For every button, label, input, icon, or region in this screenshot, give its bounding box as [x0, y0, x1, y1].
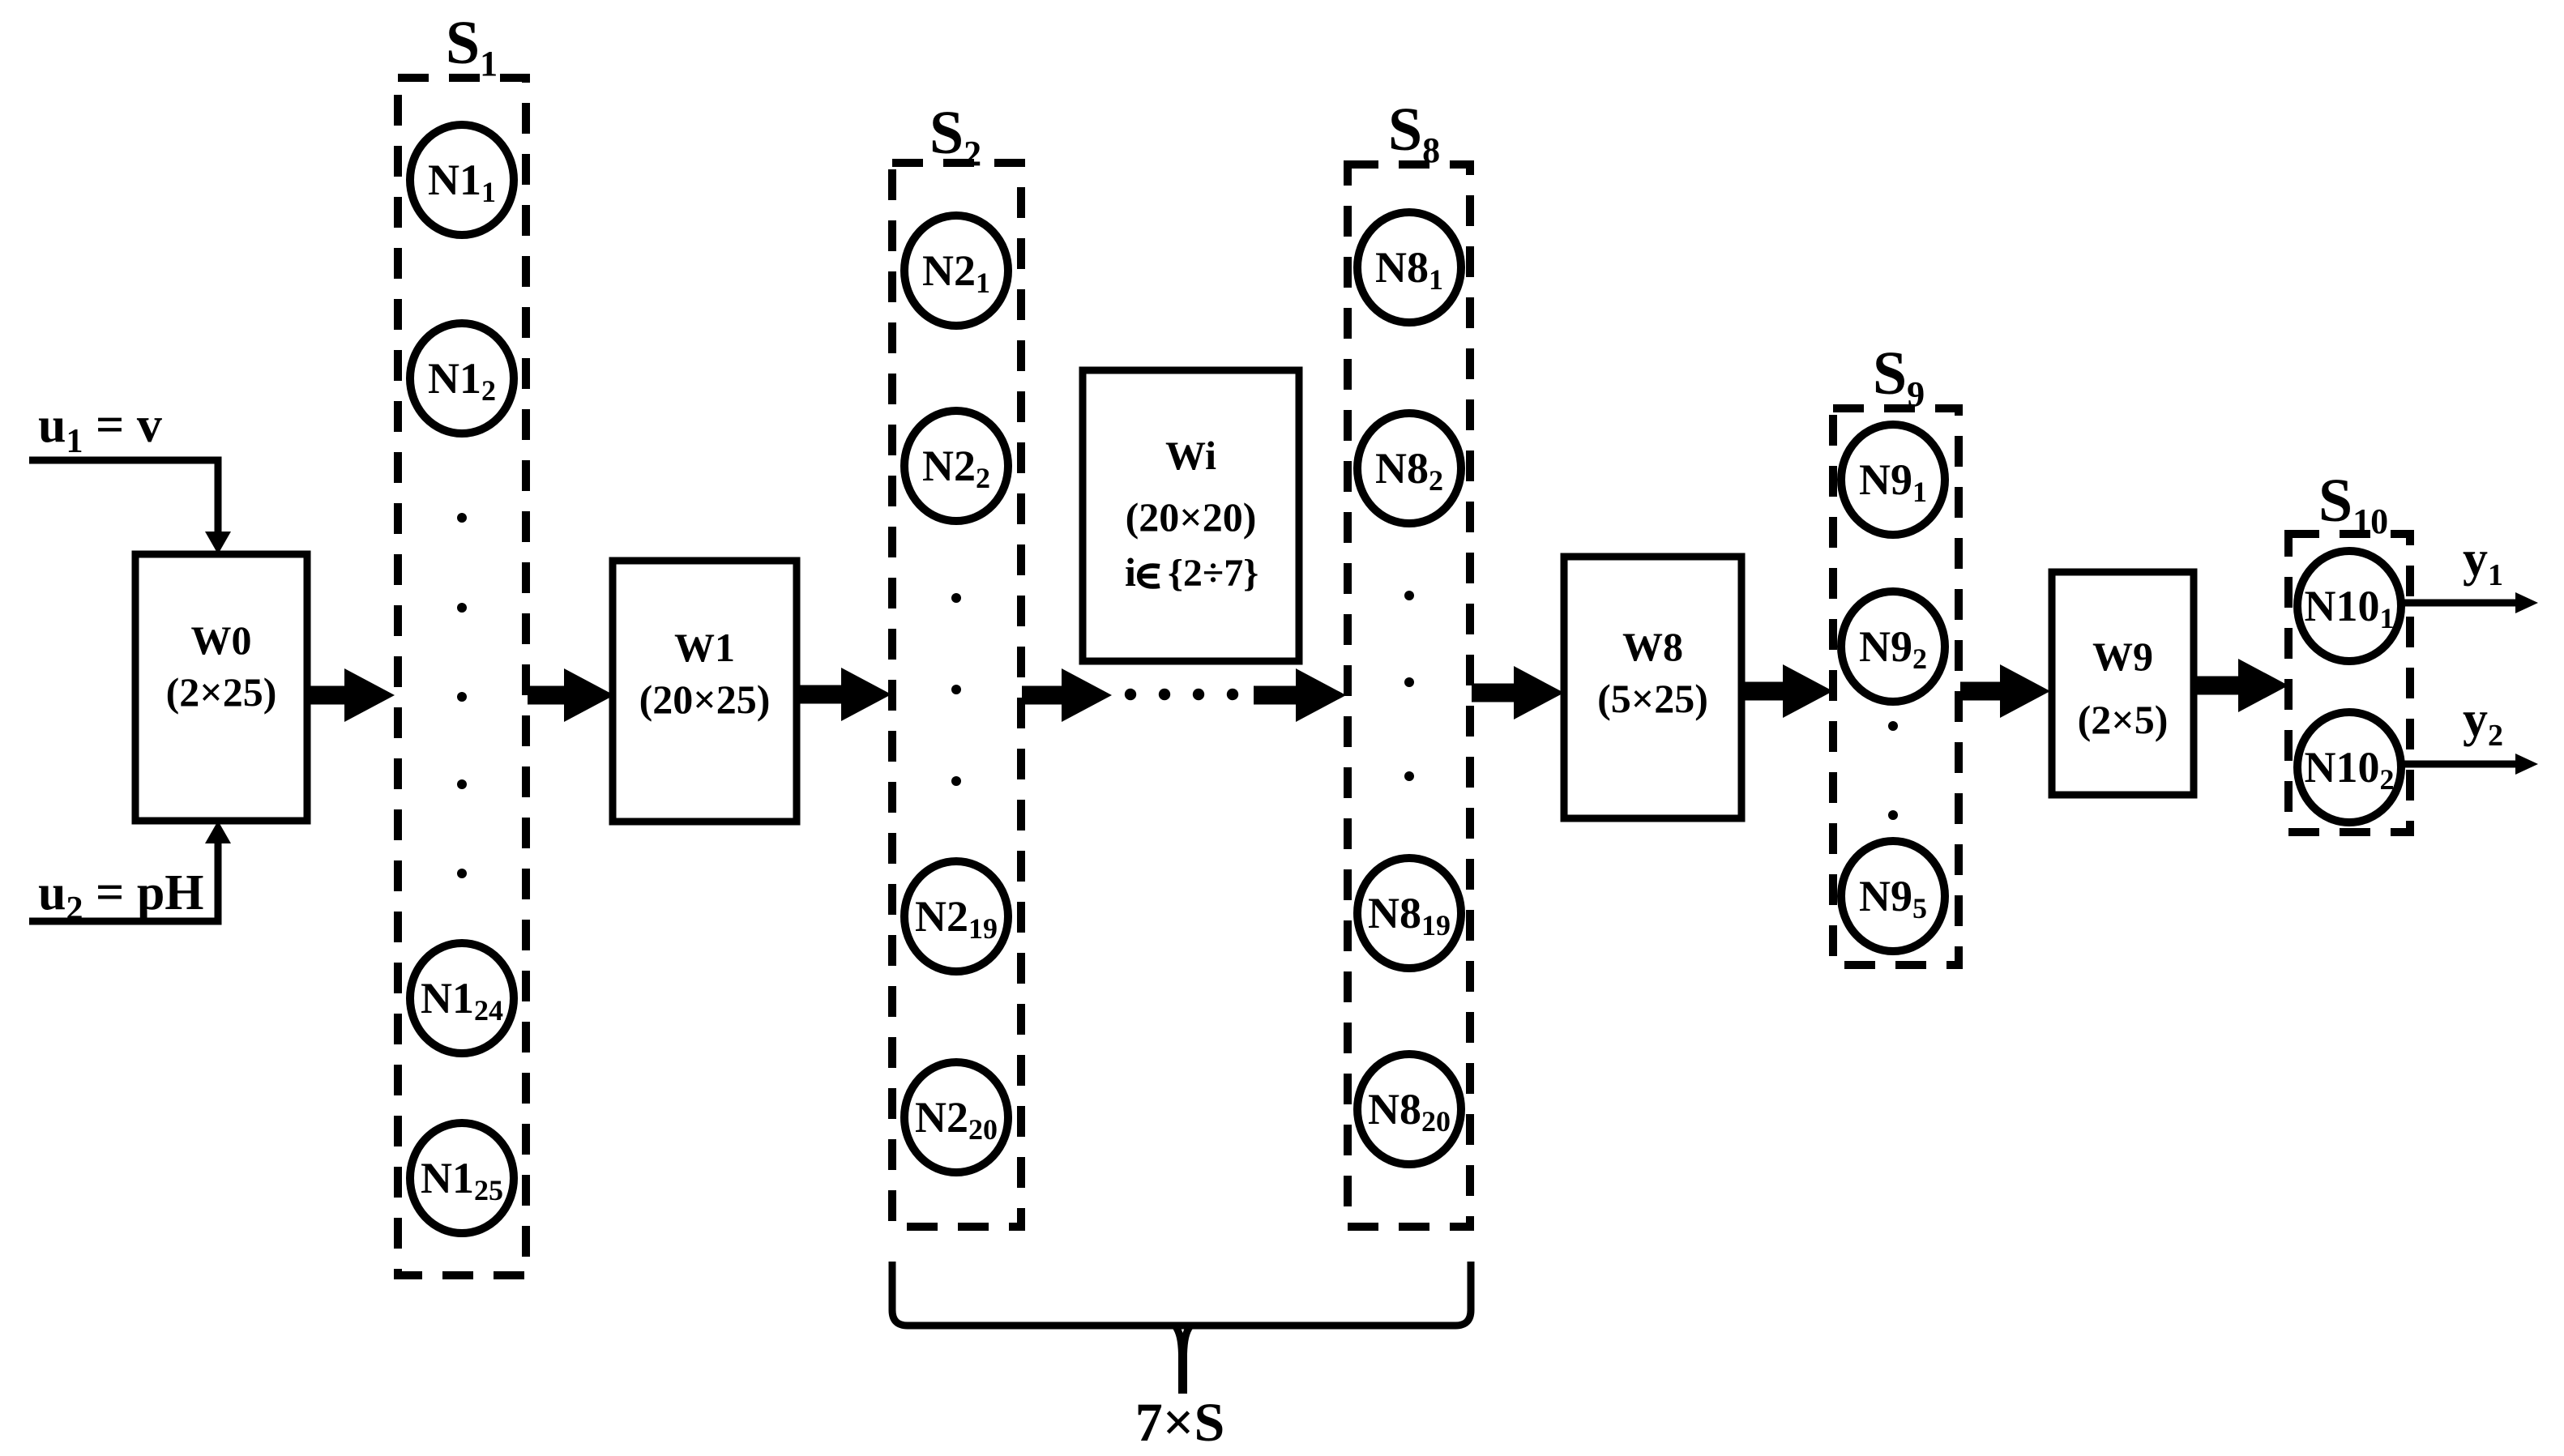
output wire y2	[2401, 754, 2538, 775]
svg-text:N101: N101	[2305, 582, 2395, 634]
svg-text:N819: N819	[1368, 889, 1451, 941]
svg-text:7×S: 7×S	[1135, 1391, 1225, 1453]
svg-text:N21: N21	[922, 246, 990, 299]
svg-text:(20×25): (20×25)	[639, 677, 771, 722]
arrow hidden repeat to S8	[1254, 668, 1346, 722]
svg-text:S8: S8	[1388, 96, 1440, 170]
layer S2 dashed box	[892, 163, 1021, 1227]
layer S8 dashed box	[1348, 164, 1470, 1227]
arrow S2 to hidden repeat	[1022, 668, 1112, 722]
neuron N2_1	[904, 216, 1008, 326]
svg-text:N220: N220	[915, 1093, 998, 1146]
svg-text:N219: N219	[915, 892, 998, 945]
box W9 (2x5)	[2052, 572, 2194, 795]
neuron N2_19	[904, 861, 1008, 971]
box W8 (5x25)	[1564, 557, 1741, 818]
dots between S2 and S8	[1125, 689, 1238, 700]
box W1 (20x25)	[613, 561, 797, 822]
svg-text:W8: W8	[1622, 624, 1683, 669]
svg-text:N95: N95	[1859, 872, 1927, 924]
neuron N9_5	[1841, 841, 1945, 951]
dots S1	[457, 513, 467, 878]
svg-text:N11: N11	[428, 156, 496, 208]
svg-text:S1: S1	[446, 9, 498, 83]
arrow S9 to W9	[1960, 664, 2050, 718]
svg-text:N22: N22	[922, 442, 990, 494]
svg-text:N92: N92	[1859, 622, 1927, 675]
arrow W8 to S9	[1741, 664, 1833, 718]
output wire y1	[2401, 592, 2538, 613]
layer S9 dashed box	[1833, 408, 1959, 965]
svg-text:u1 = v: u1 = v	[38, 398, 162, 460]
svg-text:Wi: Wi	[1165, 433, 1216, 478]
neuron N10_2	[2297, 712, 2401, 822]
neuron N1_1	[410, 125, 514, 235]
wire u2 into W0 bottom	[29, 821, 231, 921]
svg-text:(2×5): (2×5)	[2078, 697, 2169, 742]
arrow S8 to W8	[1472, 666, 1564, 719]
neuron N8_2	[1357, 413, 1461, 523]
arrow W1 to S2	[797, 668, 891, 721]
svg-text:W0: W0	[191, 617, 252, 663]
svg-text:N81: N81	[1375, 243, 1443, 296]
neuron N8_19	[1357, 858, 1461, 968]
svg-text:N91: N91	[1859, 455, 1927, 508]
svg-text:W1: W1	[674, 625, 735, 670]
arrow W0 to S1	[307, 668, 395, 722]
neuron N10_1	[2297, 551, 2401, 661]
neuron N8_1	[1357, 212, 1461, 322]
neuron N9_1	[1841, 425, 1945, 535]
svg-text:N125: N125	[421, 1154, 503, 1206]
neuron N8_20	[1357, 1054, 1461, 1164]
svg-text:W9: W9	[2092, 634, 2153, 679]
neuron N1_25	[410, 1123, 514, 1233]
neuron N1_2	[410, 323, 514, 433]
box W0 (2x25)	[135, 554, 307, 821]
arrow S1 to W1	[528, 668, 614, 722]
svg-text:S9: S9	[1873, 339, 1925, 414]
svg-text:(20×20): (20×20)	[1126, 494, 1257, 540]
neuron N2_2	[904, 411, 1008, 521]
svg-text:{2÷7}: {2÷7}	[1168, 552, 1258, 595]
svg-text:N124: N124	[421, 974, 503, 1027]
dots S8	[1404, 591, 1414, 781]
neuron N2_20	[904, 1062, 1008, 1172]
svg-text:N12: N12	[428, 354, 496, 407]
dots S9	[1888, 721, 1898, 820]
svg-text:y1: y1	[2463, 532, 2503, 592]
box Wi (20x20) i in 2..7	[1083, 370, 1299, 661]
svg-text:y2: y2	[2463, 692, 2503, 753]
neuron N9_2	[1841, 591, 1945, 702]
layer S10 dashed box	[2288, 534, 2410, 832]
svg-text:i: i	[1125, 549, 1136, 595]
dots S2	[951, 593, 961, 786]
svg-text:(2×25): (2×25)	[166, 669, 277, 715]
layer S1 dashed box	[398, 78, 526, 1275]
arrow W9 to S10	[2194, 659, 2288, 712]
wire u1 into W0 top	[29, 460, 231, 554]
svg-text:(5×25): (5×25)	[1597, 676, 1708, 721]
brace 7xS spanning S2 to S8	[892, 1262, 1471, 1394]
svg-text:N820: N820	[1368, 1085, 1451, 1138]
neuron N1_24	[410, 943, 514, 1053]
svg-text:N102: N102	[2305, 743, 2395, 796]
svg-text:N82: N82	[1375, 444, 1443, 497]
